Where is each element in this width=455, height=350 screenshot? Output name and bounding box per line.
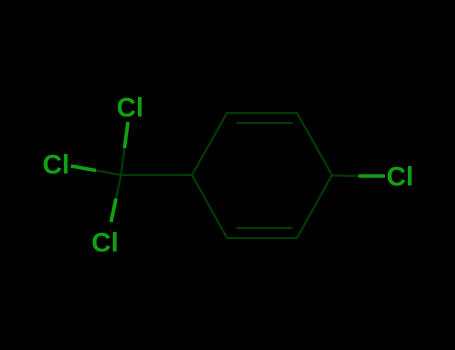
wire: ring edge C3(TR)-C4(R) <box>297 113 332 175</box>
wire: bond C7 to bottom Cl, chlorine half (bright) <box>111 199 116 223</box>
svg-text:Cl: Cl <box>387 161 414 191</box>
wire: bond C7 to top Cl, chlorine half (bright) <box>125 122 129 148</box>
svg-text:Cl: Cl <box>92 227 119 257</box>
svg-text:Cl: Cl <box>117 92 144 122</box>
wire: ring edge C1(L)-C2(TL) <box>192 113 227 175</box>
wire: bond C7 to left Cl, carbon half (dark) <box>96 171 121 176</box>
wire: double bond inner line, bottom edge <box>237 227 292 229</box>
wire: double bond inner line, top edge <box>237 122 292 124</box>
benzene ring C1-C6 (dark green C-C bonds) <box>96 113 359 238</box>
wire: bond C1(L)-C7 (CCl3 carbon), dark <box>121 174 192 176</box>
wire: bond C7 to bottom Cl, carbon half (dark) <box>116 175 121 199</box>
wire: bond C4 to right Cl, chlorine half (bright) <box>359 174 386 178</box>
wire: bond C7 to top Cl, carbon half (dark) <box>121 148 125 175</box>
wire: ring edge C2(TL)-C3(TR) top <box>227 112 297 114</box>
wire: bond C7 to left Cl, chlorine half (bright) <box>71 166 96 171</box>
wire: ring edge C4(R)-C5(BR) <box>297 175 332 238</box>
wire: ring edge C6(BL)-C1(L) <box>192 175 227 238</box>
wire: ring edge C5(BR)-C6(BL) bottom <box>227 237 297 239</box>
svg-text:Cl: Cl <box>43 149 70 179</box>
wire: bond C4(R) to right Cl, carbon half (dark) <box>332 174 359 177</box>
